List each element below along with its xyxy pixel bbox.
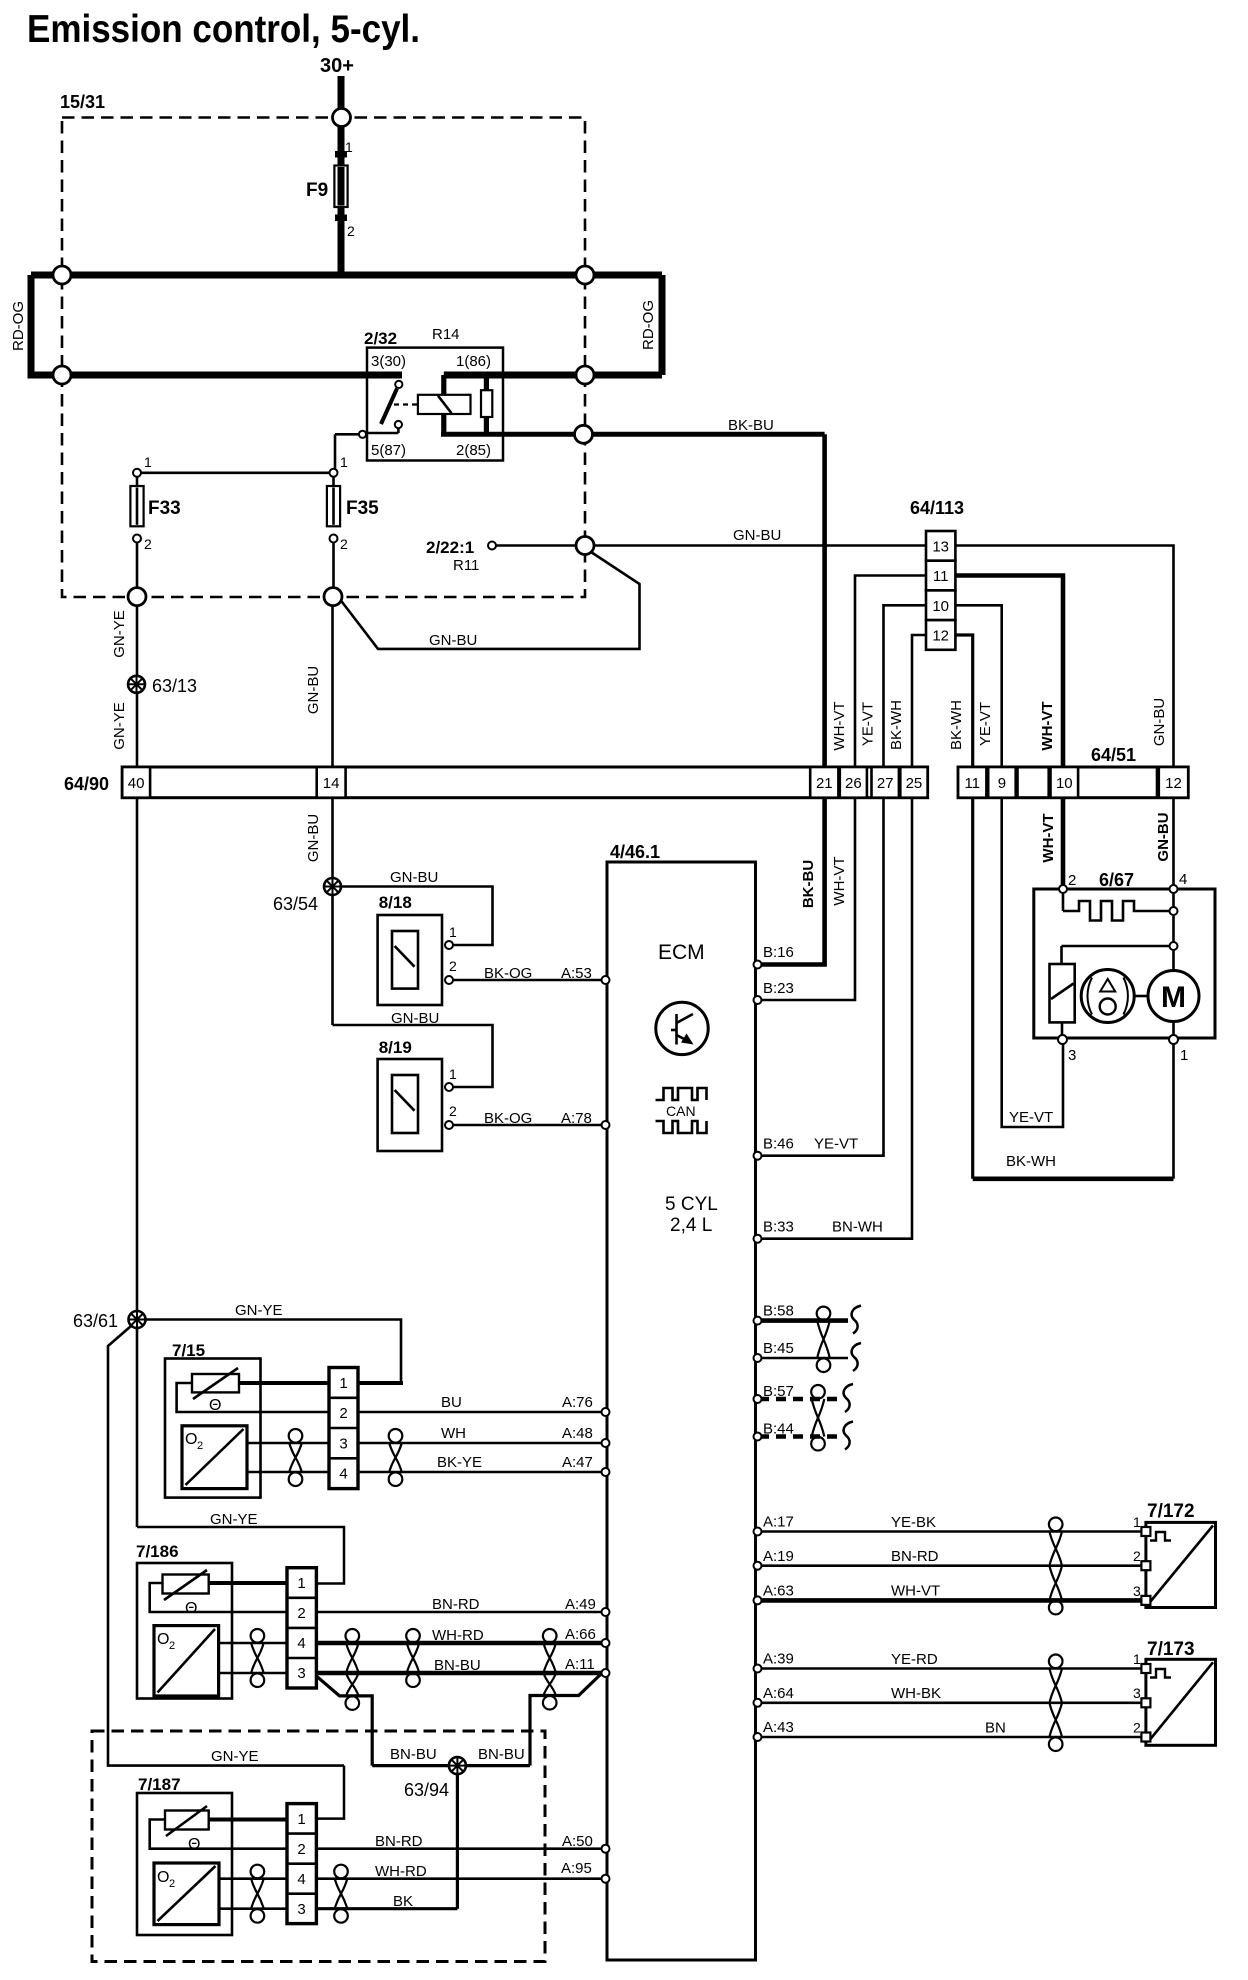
svg-text:1: 1 xyxy=(144,454,152,470)
svg-text:GN-YE: GN-YE xyxy=(211,1748,259,1765)
svg-text:2: 2 xyxy=(197,1440,203,1452)
svg-text:YE-VT: YE-VT xyxy=(977,702,994,746)
svg-text:B:44: B:44 xyxy=(763,1421,794,1438)
svg-text:4: 4 xyxy=(339,1466,347,1483)
svg-text:64/113: 64/113 xyxy=(910,498,964,518)
svg-text:15/31: 15/31 xyxy=(60,92,105,112)
svg-text:GN-YE: GN-YE xyxy=(111,610,128,658)
svg-text:2: 2 xyxy=(297,1605,305,1622)
svg-text:4/46.1: 4/46.1 xyxy=(610,842,660,862)
svg-text:2: 2 xyxy=(449,1103,457,1119)
svg-text:2: 2 xyxy=(169,1640,175,1652)
svg-text:25: 25 xyxy=(906,775,923,792)
svg-text:11: 11 xyxy=(964,775,980,792)
svg-text:2: 2 xyxy=(297,1841,305,1858)
svg-text:Θ: Θ xyxy=(188,1836,200,1853)
svg-text:BK-YE: BK-YE xyxy=(437,1454,482,1471)
svg-text:A:43: A:43 xyxy=(763,1719,794,1736)
svg-text:10: 10 xyxy=(932,598,949,615)
svg-text:2(85): 2(85) xyxy=(456,442,491,459)
svg-text:1: 1 xyxy=(297,1575,305,1592)
svg-text:GN-BU: GN-BU xyxy=(305,814,322,862)
svg-text:10: 10 xyxy=(1056,775,1073,792)
svg-text:GN-BU: GN-BU xyxy=(391,1010,439,1027)
svg-text:3: 3 xyxy=(1133,1685,1141,1701)
svg-text:O: O xyxy=(157,1631,169,1648)
svg-text:RD-OG: RD-OG xyxy=(10,301,27,351)
svg-text:GN-YE: GN-YE xyxy=(210,1511,258,1528)
svg-text:A:19: A:19 xyxy=(763,1548,794,1565)
svg-text:63/54: 63/54 xyxy=(273,894,318,914)
svg-text:2: 2 xyxy=(169,1878,175,1890)
svg-text:1: 1 xyxy=(339,1375,347,1392)
svg-text:Θ: Θ xyxy=(185,1600,197,1617)
svg-text:R14: R14 xyxy=(432,326,460,343)
svg-text:7/15: 7/15 xyxy=(172,1341,205,1360)
svg-text:2,4 L: 2,4 L xyxy=(670,1215,712,1236)
svg-text:1: 1 xyxy=(1133,1651,1141,1667)
svg-text:A:50: A:50 xyxy=(562,1833,593,1850)
svg-text:7/173: 7/173 xyxy=(1147,1639,1195,1660)
svg-text:M: M xyxy=(1161,981,1186,1014)
svg-text:26: 26 xyxy=(845,775,862,792)
svg-text:BK-BU: BK-BU xyxy=(800,860,817,908)
svg-text:2: 2 xyxy=(144,536,152,552)
svg-text:3: 3 xyxy=(297,1901,305,1918)
svg-text:30+: 30+ xyxy=(320,55,354,77)
svg-text:YE-VT: YE-VT xyxy=(1009,1109,1053,1126)
svg-text:Θ: Θ xyxy=(209,1397,221,1414)
svg-text:40: 40 xyxy=(128,775,145,792)
svg-text:B:46: B:46 xyxy=(763,1136,794,1153)
svg-text:1: 1 xyxy=(340,454,348,470)
svg-text:63/13: 63/13 xyxy=(152,676,197,696)
svg-text:63/94: 63/94 xyxy=(404,1780,449,1800)
svg-text:A:17: A:17 xyxy=(763,1514,794,1531)
svg-text:7/172: 7/172 xyxy=(1147,1501,1195,1522)
svg-text:64/90: 64/90 xyxy=(64,774,109,794)
svg-text:F35: F35 xyxy=(346,498,379,519)
svg-text:GN-YE: GN-YE xyxy=(235,1302,283,1319)
svg-text:B:33: B:33 xyxy=(763,1219,794,1236)
svg-text:GN-YE: GN-YE xyxy=(111,702,128,750)
svg-text:YE-BK: YE-BK xyxy=(891,1514,936,1531)
svg-text:2: 2 xyxy=(340,536,348,552)
svg-text:A:39: A:39 xyxy=(763,1651,794,1668)
svg-text:WH-VT: WH-VT xyxy=(831,701,848,750)
svg-text:2/32: 2/32 xyxy=(364,329,397,348)
svg-text:3: 3 xyxy=(1068,1047,1076,1064)
svg-text:5(87): 5(87) xyxy=(371,442,406,459)
svg-text:BK-WH: BK-WH xyxy=(888,700,905,750)
svg-text:B:45: B:45 xyxy=(763,1340,794,1357)
svg-text:7/186: 7/186 xyxy=(136,1542,179,1561)
svg-text:WH-RD: WH-RD xyxy=(375,1863,427,1880)
svg-text:BK-WH: BK-WH xyxy=(1006,1153,1056,1170)
svg-text:2/22:1: 2/22:1 xyxy=(426,538,474,557)
svg-text:1: 1 xyxy=(297,1811,305,1828)
svg-text:A:47: A:47 xyxy=(562,1454,593,1471)
svg-text:27: 27 xyxy=(877,775,894,792)
svg-text:WH: WH xyxy=(441,1425,466,1442)
svg-text:BN: BN xyxy=(985,1720,1006,1737)
svg-text:21: 21 xyxy=(816,775,833,792)
svg-text:3(30): 3(30) xyxy=(371,353,406,370)
svg-text:YE-VT: YE-VT xyxy=(814,1136,858,1153)
svg-text:F9: F9 xyxy=(306,180,328,201)
svg-text:8/19: 8/19 xyxy=(379,1038,412,1057)
svg-text:3: 3 xyxy=(339,1435,347,1452)
svg-text:WH-VT: WH-VT xyxy=(1040,813,1057,862)
svg-text:B:58: B:58 xyxy=(763,1303,794,1320)
svg-text:A:64: A:64 xyxy=(763,1685,794,1702)
svg-text:BK-OG: BK-OG xyxy=(484,965,532,982)
svg-text:A:76: A:76 xyxy=(562,1394,593,1411)
svg-text:ECM: ECM xyxy=(658,941,705,964)
svg-text:2: 2 xyxy=(339,1405,347,1422)
svg-text:A:11: A:11 xyxy=(565,1656,595,1673)
svg-text:BK: BK xyxy=(393,1893,413,1910)
svg-text:F33: F33 xyxy=(148,498,181,519)
svg-text:2: 2 xyxy=(1068,872,1076,889)
svg-text:BN-RD: BN-RD xyxy=(375,1833,423,1850)
svg-text:3: 3 xyxy=(1133,1583,1141,1599)
svg-text:4: 4 xyxy=(297,1635,305,1652)
svg-text:BN-BU: BN-BU xyxy=(434,1657,481,1674)
svg-text:B:23: B:23 xyxy=(763,980,794,997)
svg-text:WH-RD: WH-RD xyxy=(432,1627,484,1644)
svg-text:11: 11 xyxy=(933,568,949,585)
svg-text:WH-BK: WH-BK xyxy=(891,1685,941,1702)
svg-text:1: 1 xyxy=(1180,1047,1188,1064)
svg-text:BK-BU: BK-BU xyxy=(728,417,774,434)
svg-text:7/187: 7/187 xyxy=(138,1775,181,1794)
svg-text:4: 4 xyxy=(297,1871,305,1888)
svg-text:A:63: A:63 xyxy=(763,1583,794,1600)
svg-text:A:78: A:78 xyxy=(561,1110,592,1127)
svg-text:O: O xyxy=(157,1869,169,1886)
svg-text:Emission control, 5-cyl.: Emission control, 5-cyl. xyxy=(27,8,420,51)
svg-text:2: 2 xyxy=(1133,1548,1141,1564)
svg-text:4: 4 xyxy=(1179,871,1187,888)
svg-text:1: 1 xyxy=(1133,1514,1141,1530)
svg-text:BU: BU xyxy=(441,1394,462,1411)
svg-text:WH-VT: WH-VT xyxy=(1039,701,1056,750)
svg-text:8/18: 8/18 xyxy=(379,893,412,912)
svg-text:64/51: 64/51 xyxy=(1091,745,1136,765)
svg-text:GN-BU: GN-BU xyxy=(429,632,477,649)
svg-text:A:95: A:95 xyxy=(561,1860,592,1877)
svg-text:63/61: 63/61 xyxy=(73,1311,118,1331)
svg-text:12: 12 xyxy=(1165,775,1182,792)
svg-text:1(86): 1(86) xyxy=(456,353,491,370)
svg-text:A:53: A:53 xyxy=(561,965,592,982)
svg-text:BN-BU: BN-BU xyxy=(390,1746,437,1763)
svg-text:1: 1 xyxy=(345,139,353,155)
svg-text:9: 9 xyxy=(998,775,1006,792)
svg-text:BK-WH: BK-WH xyxy=(948,700,965,750)
svg-text:6/67: 6/67 xyxy=(1099,870,1134,890)
svg-text:GN-BU: GN-BU xyxy=(733,527,781,544)
svg-text:GN-BU: GN-BU xyxy=(305,666,322,714)
svg-text:2: 2 xyxy=(347,223,355,239)
svg-text:A:48: A:48 xyxy=(562,1425,593,1442)
svg-text:BN-WH: BN-WH xyxy=(832,1219,883,1236)
svg-text:YE-RD: YE-RD xyxy=(891,1651,938,1668)
svg-text:5 CYL: 5 CYL xyxy=(665,1194,718,1215)
svg-text:RD-OG: RD-OG xyxy=(640,300,657,350)
svg-text:BN-BU: BN-BU xyxy=(478,1746,525,1763)
svg-text:YE-VT: YE-VT xyxy=(860,702,877,746)
svg-text:2: 2 xyxy=(1133,1720,1141,1736)
svg-text:WH-VT: WH-VT xyxy=(831,856,848,905)
svg-text:GN-BU: GN-BU xyxy=(1155,812,1172,861)
svg-text:12: 12 xyxy=(932,627,949,644)
svg-text:13: 13 xyxy=(932,538,949,555)
svg-text:14: 14 xyxy=(323,775,340,792)
svg-text:GN-BU: GN-BU xyxy=(390,869,438,886)
svg-text:3: 3 xyxy=(297,1665,305,1682)
svg-text:1: 1 xyxy=(449,1066,457,1082)
svg-text:1: 1 xyxy=(449,924,457,940)
svg-text:CAN: CAN xyxy=(666,1103,696,1119)
svg-text:B:16: B:16 xyxy=(763,944,794,961)
svg-text:A:66: A:66 xyxy=(565,1626,596,1643)
svg-text:BN-RD: BN-RD xyxy=(432,1596,480,1613)
svg-text:GN-BU: GN-BU xyxy=(1151,698,1168,746)
svg-text:R11: R11 xyxy=(453,557,479,574)
svg-text:2: 2 xyxy=(449,958,457,974)
svg-text:O: O xyxy=(185,1431,197,1448)
svg-text:WH-VT: WH-VT xyxy=(891,1583,940,1600)
svg-text:BK-OG: BK-OG xyxy=(484,1110,532,1127)
svg-text:B:57: B:57 xyxy=(763,1383,794,1400)
svg-text:A:49: A:49 xyxy=(565,1596,596,1613)
svg-text:BN-RD: BN-RD xyxy=(891,1548,939,1565)
